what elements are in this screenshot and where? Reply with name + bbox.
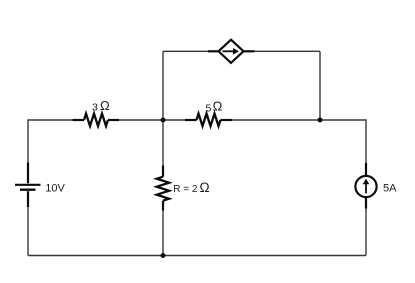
node B (right junction dot) bbox=[318, 118, 323, 123]
wire: upper-loop top left segment bbox=[163, 50, 209, 52]
wire: upper-loop top right segment bbox=[254, 50, 321, 52]
wire: upper-loop right vertical (down to node B) bbox=[319, 51, 321, 120]
svg-text:R = 2: R = 2 bbox=[173, 184, 198, 195]
wire: bottom rail bbox=[28, 255, 366, 257]
current source arrow bbox=[363, 179, 370, 194]
current source I1 5A (circle with up arrow) bbox=[355, 163, 376, 209]
wire: left rail upper (corner down to battery) bbox=[27, 119, 29, 164]
svg-text:Ω: Ω bbox=[200, 180, 210, 195]
wire: right rail upper (top-right corner down to current source) bbox=[365, 119, 367, 165]
wire: top rail left segment (left rail top corner to 3-ohm left lead) bbox=[28, 119, 73, 121]
dependent source U1 (diamond with right arrow) bbox=[208, 40, 255, 63]
wire: upper-loop left vertical (node A up to loop top) bbox=[162, 51, 164, 120]
resistor R vertical 2-ohm (zigzag + leads) bbox=[157, 166, 169, 211]
wire: top rail right segment (5-ohm right lead to top-right corner) bbox=[232, 119, 367, 121]
node C (bottom junction dot) bbox=[161, 253, 166, 258]
svg-text:3: 3 bbox=[92, 102, 98, 114]
battery V1 10V bbox=[15, 163, 41, 208]
svg-text:Ω: Ω bbox=[100, 98, 110, 113]
resistor R1 3-ohm (zigzag + leads) bbox=[73, 114, 120, 126]
wire: middle rail lower (R lead down to bottom node) bbox=[162, 209, 164, 256]
wire: middle rail upper (node A down to R lead) bbox=[162, 120, 164, 167]
svg-text:Ω: Ω bbox=[213, 99, 223, 114]
wire: left rail lower (battery down to bottom-left corner) bbox=[27, 206, 29, 256]
svg-text:5A: 5A bbox=[383, 182, 397, 194]
wire: top rail between 3-ohm and 5-ohm bbox=[119, 119, 186, 121]
dependent source arrow bbox=[223, 48, 240, 55]
wire: right rail lower (current source to bottom-right corner) bbox=[365, 207, 367, 256]
resistor R2 5-ohm (zigzag + leads) bbox=[185, 114, 232, 126]
node A (middle junction dot) bbox=[161, 118, 166, 123]
svg-text:10V: 10V bbox=[45, 182, 65, 194]
svg-text:5: 5 bbox=[206, 102, 212, 114]
